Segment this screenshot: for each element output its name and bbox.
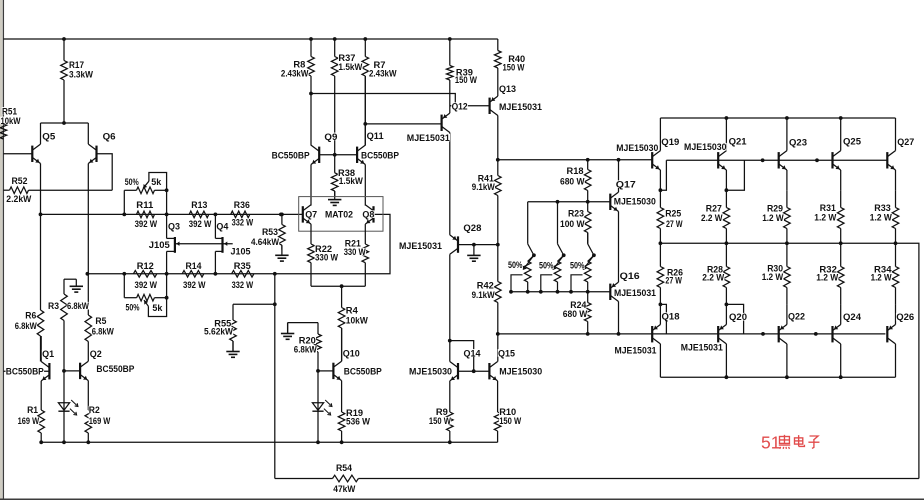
resistor R34 (892, 243, 899, 304)
label Q17 (616, 180, 637, 191)
svg-text:332 W: 332 W (232, 280, 254, 291)
wire potA feed (527, 202, 529, 244)
transistor Q8 (365, 205, 373, 224)
transistor Q19 (652, 151, 660, 170)
wire JFET gate link (176, 242, 233, 246)
junction L2 x215 (214, 272, 218, 276)
label R10 (499, 407, 517, 418)
svg-text:392 W: 392 W (189, 219, 212, 230)
label Q6 (102, 132, 116, 143)
potentiometer trimmer C (571, 244, 594, 292)
wire Q20 emitter (725, 304, 727, 324)
transistor Q22 (779, 325, 787, 344)
label Q16 part (614, 288, 657, 299)
LED D2 (312, 400, 332, 415)
transistor Q27 (887, 151, 895, 170)
junction L1 R53 (280, 213, 284, 217)
label R7 value (369, 68, 397, 79)
label R1 (27, 405, 39, 416)
svg-text:R25: R25 (665, 209, 682, 220)
resistor R32 (837, 243, 844, 304)
svg-text:5k: 5k (151, 177, 162, 188)
resistor R10 (494, 412, 501, 442)
transistor Q1 (41, 362, 49, 381)
resistor R11 (137, 211, 155, 218)
label potC (570, 261, 585, 272)
label Q14 (463, 348, 481, 359)
potentiometer 5k lower (124, 274, 166, 317)
label MAT02 (325, 210, 354, 221)
wire Q28 collector (449, 254, 451, 340)
junction lower bias left (496, 332, 500, 336)
wire Q10 collector (341, 328, 343, 361)
svg-text:6.8kW: 6.8kW (15, 321, 37, 332)
junction Q10 base (316, 369, 320, 373)
junction upper base d2 (815, 158, 819, 162)
label R35 value (231, 280, 253, 291)
svg-text:Q21: Q21 (729, 137, 748, 148)
wire Q25 emitter (840, 170, 842, 190)
label R41 value (472, 182, 496, 193)
label Q8 (362, 210, 375, 221)
svg-text:4.64kW: 4.64kW (251, 237, 279, 248)
svg-text:6.8kW: 6.8kW (294, 345, 317, 356)
resistor R23 (584, 202, 591, 244)
label R21 (345, 238, 362, 249)
svg-text:Q27: Q27 (897, 137, 914, 148)
junction pot2 right (165, 296, 169, 300)
label R39 (456, 67, 474, 78)
label Q1 (42, 349, 55, 360)
wire Q7 emitter (310, 224, 312, 244)
junction rail x64 (62, 440, 66, 444)
label Q5 (42, 132, 56, 143)
junction rail x450 (448, 440, 452, 444)
junction mid rail 660.4 (659, 241, 663, 245)
junction trimmer B wiper (562, 253, 566, 257)
wire Q20 stair (726, 304, 743, 334)
junction R37 top (333, 37, 337, 41)
junction trimmer A bottom (526, 290, 530, 294)
ground R20 (281, 323, 294, 340)
potentiometer trimmer B (541, 244, 564, 292)
junction trimmer C bottom (586, 290, 590, 294)
wire Q4 source (214, 251, 216, 273)
junction L1 x215 (214, 213, 218, 217)
label R22 value (315, 253, 339, 264)
resistor R37 (331, 39, 338, 155)
wire LED1 line (63, 371, 65, 442)
wire Q27 emitter (895, 170, 897, 190)
label Q4 (216, 222, 229, 233)
svg-text:BC550BP: BC550BP (344, 367, 383, 378)
label R52 value (6, 194, 32, 205)
svg-text:MJE15030: MJE15030 (499, 367, 542, 378)
svg-text:50%: 50% (508, 260, 523, 271)
wire Q11 emitter (364, 165, 366, 206)
label R55 value (204, 327, 234, 338)
label R6 value (15, 321, 38, 332)
transistor Q18 (652, 325, 660, 344)
label Q7 (305, 210, 318, 221)
label R4 (346, 306, 359, 317)
wire Q10 base (318, 370, 333, 372)
svg-text:1.2 W: 1.2 W (870, 213, 892, 224)
wire R6 top (40, 309, 42, 311)
svg-text:169 W: 169 W (89, 416, 111, 427)
svg-text:150 W: 150 W (429, 416, 451, 427)
svg-text:2.2 W: 2.2 W (702, 272, 724, 283)
resistor R17 (61, 39, 68, 123)
label R9 (436, 407, 449, 418)
resistor R27 (723, 190, 730, 243)
svg-text:2.2 W: 2.2 W (701, 213, 723, 224)
svg-text:50%: 50% (125, 177, 139, 188)
junction lower base d2 (814, 332, 818, 336)
label R24 value (563, 309, 588, 320)
label R31 value (814, 213, 837, 224)
wire R54 return line (274, 274, 276, 479)
junction L2 x166 (165, 272, 169, 276)
wire R55 bracket (233, 304, 275, 320)
label R52 (11, 176, 28, 187)
transistor Q12 (442, 113, 450, 132)
potentiometer 5k upper (124, 173, 166, 194)
svg-text:Q8: Q8 (362, 210, 374, 221)
wire Q6 emitter (87, 123, 89, 144)
svg-text:169 W: 169 W (18, 416, 40, 427)
label R31 (820, 203, 837, 214)
label Q22 (788, 312, 806, 323)
label Q17 part (614, 197, 657, 208)
label Q1 part (6, 367, 45, 378)
junction rail x88 (86, 440, 90, 444)
label Q11 part (361, 150, 400, 161)
junction R55 tap (273, 302, 277, 306)
svg-text:9.1kW: 9.1kW (472, 290, 495, 301)
label Q10 (343, 348, 361, 359)
wire Q12 collector (449, 133, 451, 235)
junction R18 top (586, 158, 590, 162)
wire Q28 base (458, 244, 498, 246)
wire Q9 emitter (310, 165, 312, 206)
wire Q1 base (3, 370, 49, 372)
label Q11 (366, 131, 384, 142)
wire Q15 emitter (497, 381, 499, 412)
svg-text:2.43kW: 2.43kW (281, 68, 309, 79)
wire Q22 collector (786, 344, 788, 377)
resistor R33 (892, 190, 899, 243)
svg-text:Q13: Q13 (499, 84, 516, 95)
transistor Q4 J105 (215, 237, 222, 253)
svg-text:3.3kW: 3.3kW (69, 69, 93, 80)
wire top supply rail (3, 38, 497, 40)
transistor Q23 (779, 151, 787, 170)
svg-text:R14: R14 (186, 261, 203, 272)
svg-text:9.1kW: 9.1kW (472, 182, 495, 193)
resistor R4 (338, 286, 345, 361)
junction Q14 cb loop (448, 339, 452, 343)
resistor R38 (331, 155, 338, 197)
resistor R42 (495, 245, 502, 334)
resistor R20 (315, 334, 322, 371)
label R18 value (560, 176, 585, 187)
wire Q3 drain (166, 214, 168, 238)
label Q2 part (96, 364, 135, 375)
junction R7 top (363, 37, 367, 41)
junction L1 Q5col (39, 213, 43, 217)
label R29 (767, 204, 784, 215)
svg-text:R13: R13 (191, 200, 207, 211)
wire Q5 base (3, 153, 32, 155)
label R13 (191, 200, 208, 211)
svg-text:MJE15030: MJE15030 (616, 143, 658, 154)
label R4 value (346, 316, 369, 327)
resistor R3 (61, 279, 68, 371)
svg-text:Q5: Q5 (42, 132, 56, 143)
svg-text:1.5kW: 1.5kW (338, 62, 362, 73)
junction R8 node (309, 92, 313, 96)
svg-text:Q23: Q23 (789, 138, 807, 149)
junction R23 top (586, 200, 590, 204)
resistor R35 (232, 271, 254, 278)
label Q18 (661, 312, 680, 323)
transistor Q20 (718, 325, 726, 344)
label R25 value (666, 219, 683, 230)
junction Q20 emitter (725, 303, 729, 307)
svg-text:5.62kW: 5.62kW (204, 327, 233, 338)
junction trimmer A bracket (509, 290, 513, 294)
label R21 value (343, 247, 366, 258)
label R28 (707, 264, 724, 275)
wire bottom rail (41, 441, 497, 443)
resistor R19 (338, 412, 345, 442)
label Q19 part (616, 143, 659, 154)
label Q24 (843, 312, 862, 323)
wire lower bias line (498, 333, 886, 335)
wire output top rail (660, 117, 895, 119)
wire Q2 base (64, 370, 80, 372)
wire Q21 collector (725, 118, 727, 151)
svg-text:Q17: Q17 (616, 180, 636, 191)
junction L2 pot2L (122, 272, 126, 276)
wire Q19 collector (659, 118, 661, 151)
svg-text:Q26: Q26 (896, 312, 914, 323)
resistor R18 (584, 160, 591, 202)
resistor R55 (230, 320, 237, 352)
svg-text:50%: 50% (126, 303, 140, 314)
label Q13 part (499, 102, 543, 113)
label Q12 (451, 102, 468, 113)
label R42 value (471, 290, 495, 301)
label Q15 part (499, 367, 543, 378)
svg-text:R5: R5 (95, 316, 107, 327)
svg-text:1.2 W: 1.2 W (814, 213, 836, 224)
wire R22-R21 bottom (311, 285, 365, 287)
label R5 (95, 316, 107, 327)
label R40 (508, 54, 526, 65)
label R14 (185, 261, 202, 272)
svg-text:MAT02: MAT02 (325, 210, 353, 221)
resistor R26 (657, 243, 664, 304)
ground R55 (226, 341, 239, 357)
label R37 (338, 53, 356, 64)
svg-text:Q25: Q25 (843, 137, 862, 148)
wire Q26 emitter (895, 304, 897, 324)
svg-text:392 W: 392 W (135, 219, 158, 230)
resistor R2 (85, 410, 92, 443)
label R25 (665, 209, 682, 220)
label R20 (299, 336, 317, 347)
junction mid rail 895.5 (894, 241, 898, 245)
junction pot1 right (165, 188, 169, 192)
wire upper bias line (498, 159, 652, 161)
label Q18 part (614, 346, 657, 357)
wire Q8 emitter (364, 224, 366, 244)
junction L2 Q2col (86, 272, 90, 276)
svg-text:MJE15030: MJE15030 (409, 367, 452, 378)
resistor R36 (231, 211, 250, 218)
junction Q2 base (62, 369, 66, 373)
wire potC feed (587, 233, 589, 244)
svg-text:100 W: 100 W (560, 219, 585, 230)
svg-text:332 W: 332 W (232, 218, 254, 229)
svg-text:1.2 W: 1.2 W (762, 272, 784, 283)
wire Q18 emitter (659, 304, 661, 324)
label R53 value (251, 237, 280, 248)
label R5 value (92, 326, 115, 337)
label Q3 part (149, 240, 171, 251)
wire Q27 collector (895, 118, 897, 151)
label R36 (234, 200, 251, 211)
wire Q18 collector (659, 344, 661, 377)
svg-text:Q1: Q1 (42, 349, 55, 360)
wire output bottom rail (660, 376, 895, 378)
label pot2 value (152, 303, 163, 314)
label R8 (293, 59, 306, 70)
label R19 (346, 408, 364, 419)
resistor R13 (189, 211, 209, 218)
svg-text:R54: R54 (336, 463, 353, 474)
LED D1 (58, 400, 78, 415)
label R33 value (870, 213, 893, 224)
wire Q24 collector (840, 344, 842, 377)
label pot1 value (151, 177, 162, 188)
junction bottom rail 786.9 (785, 375, 789, 379)
resistor R22 (308, 244, 315, 286)
resistor R53 (279, 214, 286, 249)
svg-text:Q11: Q11 (367, 131, 385, 142)
svg-text:Q3: Q3 (168, 222, 180, 233)
wire Q2 emitter (87, 381, 89, 410)
resistor R8 (308, 39, 315, 94)
svg-text:MJE15031: MJE15031 (615, 346, 658, 357)
svg-text:BC550BP: BC550BP (96, 364, 135, 375)
wire potB feed (557, 202, 559, 244)
junction trimmer B bottom (556, 290, 560, 294)
label R22 (315, 244, 333, 255)
svg-text:50%: 50% (570, 261, 585, 272)
label R38 (338, 168, 356, 179)
svg-text:Q18: Q18 (662, 312, 680, 323)
label R38 value (339, 176, 364, 187)
junction bottom rail 726.4 (725, 375, 729, 379)
junction L1 pot1L (122, 213, 126, 217)
junction Q14 base (472, 369, 476, 373)
label Q13 (499, 84, 517, 95)
label R19 value (346, 416, 371, 427)
label R7 (373, 60, 386, 71)
label pot1 percent (124, 177, 139, 188)
transistor Q15 (489, 362, 497, 381)
svg-text:1.5kW: 1.5kW (339, 176, 363, 187)
svg-text:J105: J105 (149, 240, 171, 251)
junction bottom rail 840.7 (839, 375, 843, 379)
label R3 value (67, 301, 90, 312)
wire R20 bracket (288, 323, 318, 334)
junction rail x318 (316, 440, 320, 444)
transistor Q10 (333, 361, 341, 380)
transistor Q21 (718, 151, 726, 170)
svg-text:680 W: 680 W (563, 309, 588, 320)
label R27 value (701, 213, 723, 224)
transistor Q5 (32, 144, 40, 163)
transistor Q25 (833, 151, 841, 170)
resistor R54 (275, 475, 919, 482)
svg-text:BC550BP: BC550BP (361, 150, 400, 161)
resistor R30 (784, 243, 791, 304)
svg-text:R2: R2 (89, 405, 100, 416)
label Q20 part (681, 342, 724, 353)
wire Q16 collector (618, 302, 620, 334)
svg-text:MJE15031: MJE15031 (407, 133, 451, 144)
svg-text:MJE15031: MJE15031 (399, 241, 443, 252)
svg-text:R1: R1 (27, 405, 39, 416)
junction top rail c2 (785, 116, 789, 120)
resistor R40 (495, 39, 502, 96)
transistor Q7 (303, 205, 311, 224)
svg-text:Q4: Q4 (216, 222, 229, 233)
junction upper base d1 (761, 158, 765, 162)
label Q21 part (684, 142, 727, 153)
wire Q17 base line (528, 201, 611, 203)
svg-text:Q12: Q12 (452, 102, 468, 113)
label R37 value (338, 62, 363, 73)
junction R4 top (340, 284, 344, 288)
svg-text:J105: J105 (231, 247, 252, 258)
svg-text:Q7: Q7 (305, 210, 317, 221)
junction Q28 base R41 (496, 243, 500, 247)
label Q28 part (399, 241, 443, 252)
label Q27 (897, 137, 915, 148)
junction Q16 coll (617, 332, 621, 336)
junction Q18 emitter (659, 303, 663, 307)
svg-text:R52: R52 (12, 176, 28, 187)
transistor Q9 (311, 145, 319, 164)
label R35 (234, 261, 252, 272)
transistor Q3 J105 (167, 237, 175, 253)
svg-text:392 W: 392 W (183, 280, 206, 291)
svg-text:150 W: 150 W (503, 63, 525, 74)
junction potB feed (556, 200, 560, 204)
svg-text:536 W: 536 W (346, 416, 370, 427)
svg-text:Q15: Q15 (498, 348, 516, 359)
ground R3 (70, 279, 83, 292)
wire Q25 collector (840, 118, 842, 151)
label potB (539, 261, 554, 272)
svg-text:1.2 W: 1.2 W (871, 272, 892, 283)
label R34 (874, 264, 892, 275)
